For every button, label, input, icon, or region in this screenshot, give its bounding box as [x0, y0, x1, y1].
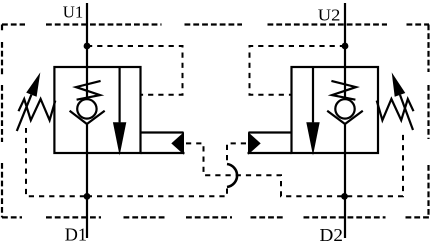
- internal pilot line CB1 from U1: [87, 46, 183, 95]
- junction node on U2: [342, 43, 349, 50]
- pilot channel CB1: [141, 133, 185, 154]
- adjustable spring S2: [377, 99, 414, 120]
- relief path CB1 flow arrow: [113, 122, 126, 155]
- pilot piston CB1: [171, 132, 184, 155]
- junction node on U1: [84, 43, 91, 50]
- relief path CB1 line: [118, 67, 120, 122]
- valve CB2 body: [292, 67, 379, 153]
- cross pilot rail D2 to spring vent S2: [347, 131, 403, 196]
- svg-text:D1: D1: [65, 224, 87, 244]
- node U1 port line: [86, 3, 88, 238]
- svg-text:U1: U1: [63, 3, 84, 22]
- junction node on D1: [84, 193, 91, 200]
- cross pilot line CB2 lower segment to D1: [89, 189, 227, 197]
- check valve CV2 spring: [331, 81, 356, 100]
- svg-text:D2: D2: [320, 225, 343, 245]
- check valve CV1 seat: [70, 111, 105, 124]
- svg-text:U2: U2: [318, 5, 341, 24]
- internal pilot line CB2 from U2: [250, 46, 346, 95]
- cross pilot line CB2 upper segment: [227, 143, 246, 162]
- adjustable spring S1: [19, 99, 56, 120]
- relief path CB2 flow arrow: [306, 122, 319, 155]
- valve CB1 body: [54, 67, 140, 153]
- valve assembly boundary (dashed enclosure): [2, 25, 429, 218]
- cross pilot rail D1 to spring vent S1: [26, 128, 85, 196]
- relief path CB2 line: [312, 67, 314, 122]
- junction node on D2: [341, 193, 348, 200]
- pilot channel CB2: [248, 133, 292, 154]
- check valve CV1 spring: [76, 81, 101, 100]
- cross pilot line CB1 to D2: [186, 143, 343, 196]
- check valve CV2 seat: [327, 111, 363, 124]
- node U2 port line: [344, 3, 346, 238]
- check valve CV1 poppet: [77, 99, 96, 118]
- line hop (crossing jump): [227, 164, 237, 187]
- adjustment arrow S1: [17, 95, 32, 131]
- adjustment arrow S2: [400, 95, 413, 130]
- check valve CV2 poppet: [335, 99, 354, 118]
- pilot piston CB2: [248, 132, 261, 155]
